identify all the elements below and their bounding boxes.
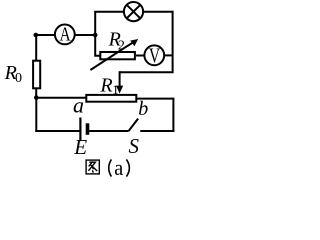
wire bottom rail to battery: [35, 130, 79, 132]
wire J3 down left rail: [35, 98, 37, 132]
rheostat R1 box: [86, 95, 136, 102]
wire J2 up to lamp level: [95, 12, 123, 35]
wire right rail upper vertical: [172, 11, 174, 72]
wire J1 to ammeter: [36, 34, 55, 36]
wire battery to switch: [89, 130, 128, 132]
svg-text:R: R: [99, 75, 112, 97]
resistor R0 box: [33, 61, 40, 89]
caption open parenthesis: [109, 159, 112, 176]
wire J2 down to R2: [95, 35, 99, 56]
wire R2 to voltmeter: [136, 55, 145, 57]
wire right rail lower vertical: [172, 99, 174, 132]
voltmeter V1: [144, 43, 164, 67]
caption glyph 图 (custom drawn): [86, 160, 99, 174]
wire ammeter to node J2: [75, 34, 96, 36]
svg-text:a: a: [114, 155, 123, 180]
node J1 (junction left of ammeter): [34, 33, 39, 38]
wire switch to right rail: [140, 130, 174, 132]
caption close parenthesis: [126, 159, 129, 176]
wire J3 to rheostat R1 terminal a: [36, 97, 86, 99]
svg-text:E: E: [73, 135, 87, 159]
wire R0 to node J3: [35, 88, 37, 98]
svg-text:b: b: [138, 98, 148, 120]
switch S blade: [129, 119, 139, 131]
rheostat R2 box: [100, 52, 135, 59]
svg-text:1: 1: [112, 82, 119, 97]
wire J1 down to R0: [35, 35, 37, 61]
node J3 (junction below R0): [34, 95, 39, 100]
wire voltmeter to right rail: [164, 54, 173, 56]
wire right rail to wiper: [120, 71, 174, 73]
rheostat R2 arrow: [90, 39, 138, 70]
battery E plates: [80, 118, 87, 142]
wire R1 terminal b to right rail: [136, 98, 174, 100]
svg-text:V: V: [149, 43, 160, 67]
svg-text:a: a: [73, 93, 84, 118]
svg-text:2: 2: [118, 39, 125, 54]
node J2 (tee junction): [93, 33, 98, 38]
svg-text:A: A: [60, 24, 72, 46]
lamp L1: [124, 2, 143, 21]
svg-text:S: S: [129, 134, 140, 158]
ammeter A1: [55, 24, 75, 46]
svg-text:0: 0: [15, 71, 22, 86]
wiper arrow of rheostat R1: [116, 71, 123, 93]
wire lamp to right rail: [143, 11, 173, 13]
